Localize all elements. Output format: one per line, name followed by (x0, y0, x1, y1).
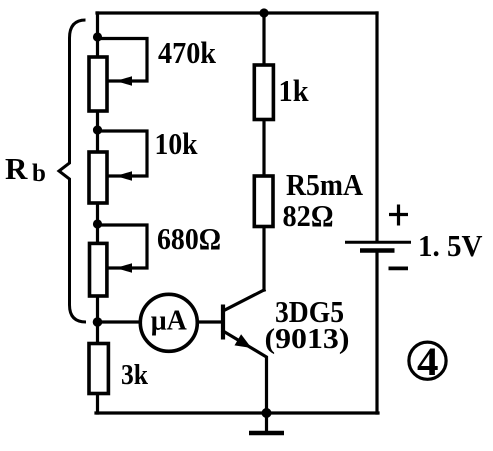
svg-text:μA: μA (151, 306, 188, 337)
svg-text:b: b (32, 160, 46, 187)
svg-text:1. 5V: 1. 5V (418, 228, 483, 263)
svg-text:3k: 3k (121, 359, 149, 391)
svg-text:680Ω: 680Ω (157, 221, 221, 256)
svg-text:R: R (5, 151, 28, 186)
svg-text:1k: 1k (279, 73, 310, 108)
svg-text:4: 4 (417, 339, 439, 384)
svg-text:10k: 10k (155, 126, 199, 161)
svg-text:(9013): (9013) (265, 324, 350, 355)
svg-text:82Ω: 82Ω (283, 198, 334, 233)
svg-text:470k: 470k (158, 35, 217, 70)
svg-text:R5mA: R5mA (286, 167, 364, 202)
